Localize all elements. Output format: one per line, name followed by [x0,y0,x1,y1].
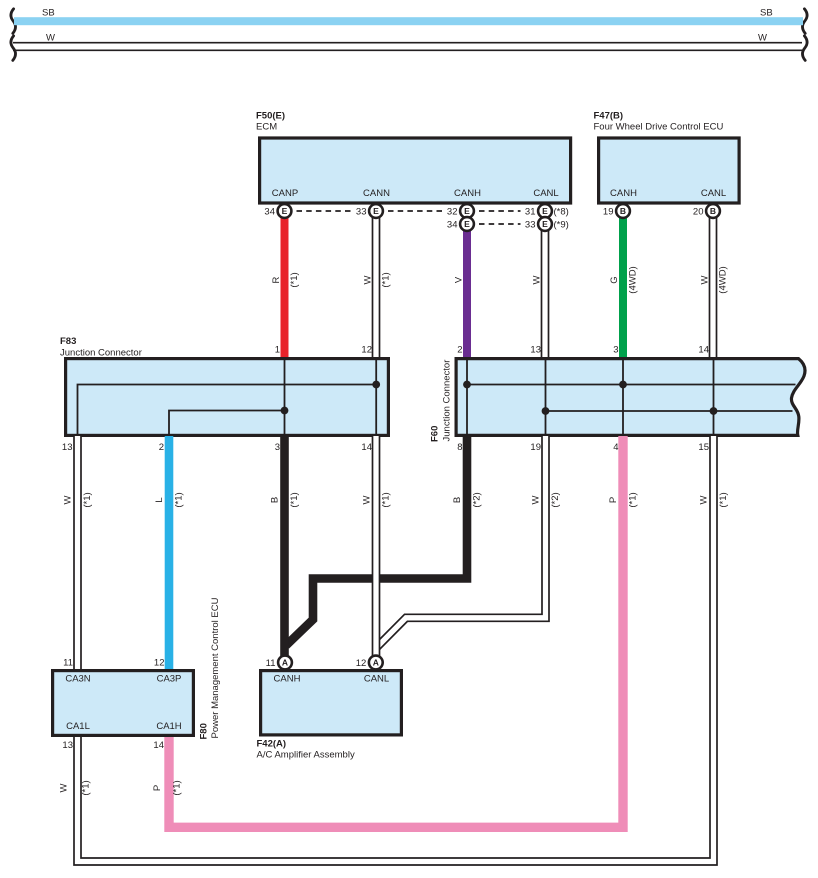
svg-text:CANN: CANN [363,188,390,199]
svg-text:CANH: CANH [610,188,637,199]
svg-text:W: W [699,495,710,504]
label Power Management Control ECU (rotated) [210,597,221,738]
junction dot F83 lower [281,407,289,415]
svg-text:CA1L: CA1L [66,721,90,732]
pin name CANL (F47) [701,188,726,199]
svg-text:(*1): (*1) [289,492,300,507]
pin name CANH (F47) [610,188,637,199]
pin name CANL (F50) [533,188,558,199]
svg-text:(4WD): (4WD) [628,266,639,293]
value label R [271,276,282,283]
svg-text:B: B [452,497,463,503]
svg-text:F60: F60 [430,426,441,442]
svg-text:3: 3 [613,345,618,356]
svg-text:(*1): (*1) [381,272,392,287]
wire G (4WD) green, F47 pin 19 CANH to F60 pin 3 [619,217,627,358]
value label (*1) of W loop (top) [718,492,729,507]
label Four Wheel Drive Control ECU [594,122,724,133]
wire break symbol left of W bus [11,36,16,61]
pin 3 number (F83 bottom) [275,442,280,453]
svg-text:(*1): (*1) [628,492,639,507]
value label (*1) of it [82,492,93,507]
svg-text:F83: F83 [60,336,76,347]
svg-text:V: V [454,276,465,283]
internal wire F60 pin13 to pin19 vertical [545,358,547,436]
svg-text:Power Management Control ECU: Power Management Control ECU [210,597,221,738]
svg-text:E: E [373,206,379,216]
value label W (at F60 pin 15) [699,495,710,504]
value label B (*1) [270,497,281,503]
pin 2 number (F60 top) [457,345,462,356]
svg-text:W: W [46,33,55,44]
svg-text:11: 11 [63,658,73,669]
label F47(B) [594,111,624,122]
value label B (*2) [452,497,463,503]
wire break symbol left of SB bus [11,9,16,34]
pin name CA3P (F80) [157,674,182,685]
svg-text:E: E [464,206,470,216]
value label P (at F60 pin 4) [608,497,619,503]
svg-text:12: 12 [154,658,165,669]
value label G [609,276,620,283]
value label (4WD) of G wire [628,266,639,293]
internal bus wire F83 lower horizontal to pin2 [169,411,285,437]
svg-text:W: W [59,783,70,792]
value label (*1) of B wire [289,492,300,507]
pin 4 number (F60 bottom) [613,442,618,453]
value label (*2) of B wire [472,492,483,507]
svg-text:W: W [532,275,543,284]
wire break symbol right of SB bus [802,9,807,34]
pin connector 11 (A) of F42 CANH [266,656,292,670]
svg-text:CANL: CANL [533,188,558,199]
label Junction Connector (F60, rotated) [442,360,453,442]
svg-text:CA3P: CA3P [157,674,182,685]
svg-text:13: 13 [530,345,541,356]
internal bus wire F83 upper horizontal to pin13 [78,385,377,437]
svg-text:CA3N: CA3N [65,674,90,685]
svg-text:(*2): (*2) [550,492,561,507]
value label V [454,276,465,283]
label ECM [256,122,277,133]
junction dot F83 upper [372,381,380,389]
pin connector 20 (B) of F47 CANL [693,204,720,218]
svg-text:W: W [531,495,542,504]
pin connector 31 (E)(*8) of F50 CANL row1 [525,204,569,218]
value label (*2) of W wire [550,492,561,507]
pin name CANH (F50) [454,188,481,199]
wire W (*1) white, F83 pin 14 to F42 pin 12 CANL [372,436,381,657]
svg-text:E: E [282,206,288,216]
label Junction Connector (F83) [60,348,142,359]
junction dot F60 upper at pin 8 line [463,381,471,389]
pin name CANH (F42) [274,674,301,685]
svg-text:B: B [270,497,281,503]
label F42(A) [257,738,287,749]
svg-text:(*1): (*1) [174,492,185,507]
wire W (*2) white, F60 pin 19 branch to F42 pin 12 [377,436,546,648]
label A/C Amplifier Assembly [257,750,355,761]
pin 19 number (F60 bottom) [530,442,541,453]
value label (*1) of R wire [289,272,300,287]
pin name CA3N (F80) [65,674,90,685]
svg-text:2: 2 [457,345,462,356]
svg-text:W: W [63,495,74,504]
svg-text:W: W [700,275,711,284]
svg-text:Junction Connector: Junction Connector [60,348,142,359]
pin 14 number (F60 top) [698,345,709,356]
svg-text:20: 20 [693,207,704,218]
wire P (*1) pink, F60 pin 4 loop to F80 pin 14 CA1H [169,436,623,827]
svg-text:B: B [620,206,626,216]
svg-text:G: G [609,276,620,283]
value label SB left [42,8,55,19]
value label W (CANL) [532,275,543,284]
label F60 (rotated) [430,426,441,442]
connector link dashed 33-32 [388,210,443,212]
wire W (*1) white, F60 pin 15 loop to F80 pin 13 CA1L [78,436,714,862]
svg-text:33: 33 [525,220,536,231]
value label W right [758,33,767,44]
wire W (*1) white, F83 pin 13 to F80 pin 11 CA3N [73,436,82,670]
svg-text:E: E [542,206,548,216]
value label L [154,497,165,502]
svg-text:34: 34 [447,220,458,231]
wire L (*1) blue, F83 pin 2 to F80 pin 12 CA3P [165,436,174,670]
wire W white, F50 pin 31/33 CANL to F60 pin 13 [541,217,550,358]
svg-text:CANL: CANL [701,188,726,199]
pin name CANN (F50) [363,188,390,199]
value label (*1) of P wire (bottom) [172,780,183,795]
svg-text:P: P [152,785,163,791]
junction connector F83 box [66,359,389,436]
value label W (4WD) [700,275,711,284]
wire R (*1) red, F50 pin 34 CANP to F83 pin 1 [281,217,289,358]
svg-text:1: 1 [275,345,280,356]
pin 14 number (F83 bottom) [361,442,372,453]
pin 12 number (F83 top) [361,345,372,356]
ECU F50(E) ECM box [260,138,571,203]
svg-text:33: 33 [356,207,367,218]
internal bus wire F60 lower horizontal [546,410,793,412]
label F83 [60,336,76,347]
svg-text:E: E [464,219,470,229]
svg-text:(*9): (*9) [554,220,569,231]
pin 15 number (F60 bottom) [698,442,709,453]
svg-text:F42(A): F42(A) [257,738,287,749]
label F80 (rotated) [199,723,210,739]
svg-text:(*1): (*1) [81,780,92,795]
svg-text:L: L [154,497,165,502]
svg-text:31: 31 [525,207,536,218]
pin connector 33 (E)(*9) of F50 CANL row2 [525,217,569,231]
pin 1 number (F83 top) [275,345,280,356]
value label (*1) of it [381,492,392,507]
value label (4WD) of W wire [718,266,729,293]
svg-text:ECM: ECM [256,122,277,133]
pin name CA1H (F80) [156,721,181,732]
wire break symbol right of W bus [802,36,807,61]
svg-text:CANH: CANH [274,674,301,685]
svg-text:8: 8 [457,442,462,453]
value label (*1) of W loop (bottom) [81,780,92,795]
svg-text:CANP: CANP [272,188,298,199]
pin 13 number (F83 bottom) [62,442,73,453]
junction dot F60 lower at pin 19 line [542,407,550,415]
pin 13 number (F80 bottom) [62,740,73,751]
svg-text:A: A [373,658,379,668]
connector link dashed 34-33 row2 [479,223,521,225]
svg-text:(*1): (*1) [718,492,729,507]
connector link dashed 32-31 [479,210,521,212]
internal bus wire F60 upper horizontal [467,384,796,386]
value label P (at F80 pin 14) [152,785,163,791]
svg-text:19: 19 [603,207,614,218]
pin 13 number (F60 top) [530,345,541,356]
svg-text:12: 12 [356,658,367,669]
pin 11 number (F80 top) [63,658,73,669]
svg-text:19: 19 [530,442,541,453]
svg-text:P: P [608,497,619,503]
svg-text:W: W [758,33,767,44]
svg-text:14: 14 [153,740,164,751]
wire W (4WD) white, F47 pin 20 CANL to F60 pin 14 [709,217,718,358]
svg-text:Four Wheel Drive Control ECU: Four Wheel Drive Control ECU [594,122,724,133]
svg-text:(*1): (*1) [289,272,300,287]
svg-text:(*1): (*1) [381,492,392,507]
svg-text:SB: SB [42,8,55,19]
svg-text:B: B [710,206,716,216]
svg-text:15: 15 [698,442,709,453]
svg-text:(*8): (*8) [554,207,569,218]
svg-text:W: W [363,275,374,284]
ECU F42(A) A/C Amplifier Assembly box [261,671,402,735]
bus wire W (white CAN trunk, drawn as double line) [13,43,802,51]
svg-text:(4WD): (4WD) [718,266,729,293]
svg-text:F80: F80 [199,723,210,739]
ECU F80 Power Management Control ECU box [53,671,194,736]
svg-text:13: 13 [62,442,73,453]
value label (*1) of P wire (top) [628,492,639,507]
internal wire F83 pin1 to pin3 vertical [284,358,286,436]
svg-text:F50(E): F50(E) [256,111,285,122]
ECU F47(B) Four Wheel Drive Control ECU box [599,138,740,203]
internal wire F60 pin3 to pin4 vertical [622,358,624,436]
pin connector 12 (A) of F42 CANL [356,656,383,670]
svg-text:CA1H: CA1H [156,721,181,732]
value label W (at F80 pin 13) [59,783,70,792]
svg-text:4: 4 [613,442,618,453]
svg-text:11: 11 [266,658,276,669]
svg-text:CANH: CANH [454,188,481,199]
value label W (*2) [531,495,542,504]
junction dot F60 upper at pin 4 line [619,381,627,389]
pin name CANL (F42) [364,674,389,685]
label F50(E) [256,111,285,122]
internal wire F83 pin12 to pin14 vertical [375,358,377,436]
svg-text:14: 14 [698,345,709,356]
pin connector 34 (E) of F50 CANH row2 [447,217,474,231]
value label W (F83 pin14 wire) [362,495,373,504]
svg-text:E: E [542,219,548,229]
pin 12 number (F80 top) [154,658,165,669]
value label (*1) of L wire [174,492,185,507]
value label W (F83 pin13 wire) [63,495,74,504]
svg-text:34: 34 [264,207,275,218]
svg-text:3: 3 [275,442,280,453]
svg-text:(*1): (*1) [82,492,93,507]
wire B (*1) black, F83 pin 3 to F42 pin 11 CANH [280,436,289,657]
svg-text:(*2): (*2) [472,492,483,507]
pin connector 34 (E) of F50 CANP [264,204,291,218]
value label W left [46,33,55,44]
pin connector 33 (E) of F50 CANN [356,204,383,218]
svg-text:R: R [271,276,282,283]
connector link dashed 34-33 [297,210,353,212]
svg-text:(*1): (*1) [172,780,183,795]
pin connector 19 (B) of F47 CANH [603,204,630,218]
svg-text:F47(B): F47(B) [594,111,624,122]
svg-text:32: 32 [447,207,458,218]
pin 8 number (F60 bottom) [457,442,462,453]
junction connector F60 box with torn right edge [456,359,805,436]
svg-text:Junction Connector: Junction Connector [442,360,453,442]
internal wire F60 pin14 to pin15 vertical [713,358,715,436]
pin 14 number (F80 bottom) [153,740,164,751]
wire W (*1) white, F50 pin 33 CANN to F83 pin 12 [372,217,381,358]
svg-text:12: 12 [361,345,372,356]
pin name CA1L (F80) [66,721,90,732]
junction dot F60 lower at pin 15 line [710,407,718,415]
internal wire F60 pin2 to pin8 vertical [466,358,468,436]
svg-text:13: 13 [62,740,73,751]
wire B (*2) black, F60 pin 8 branch to F42 pin 11 [286,436,467,646]
bus wire SB (sky blue CAN trunk) [14,17,803,25]
pin 3 number (F60 top) [613,345,618,356]
svg-text:A: A [282,658,288,668]
svg-text:SB: SB [760,8,773,19]
svg-text:14: 14 [361,442,372,453]
value label SB right [760,8,773,19]
pin connector 32 (E) of F50 CANH row1 [447,204,474,218]
svg-text:2: 2 [159,442,164,453]
svg-text:A/C Amplifier Assembly: A/C Amplifier Assembly [257,750,355,761]
value label (*1) of CANN wire [381,272,392,287]
pin name CANP (F50) [272,188,298,199]
value label W (CANN) [363,275,374,284]
svg-text:W: W [362,495,373,504]
svg-text:CANL: CANL [364,674,389,685]
wire V violet, F50 pin 34 CANH to F60 pin 2 [463,230,471,358]
pin 2 number (F83 bottom) [159,442,164,453]
